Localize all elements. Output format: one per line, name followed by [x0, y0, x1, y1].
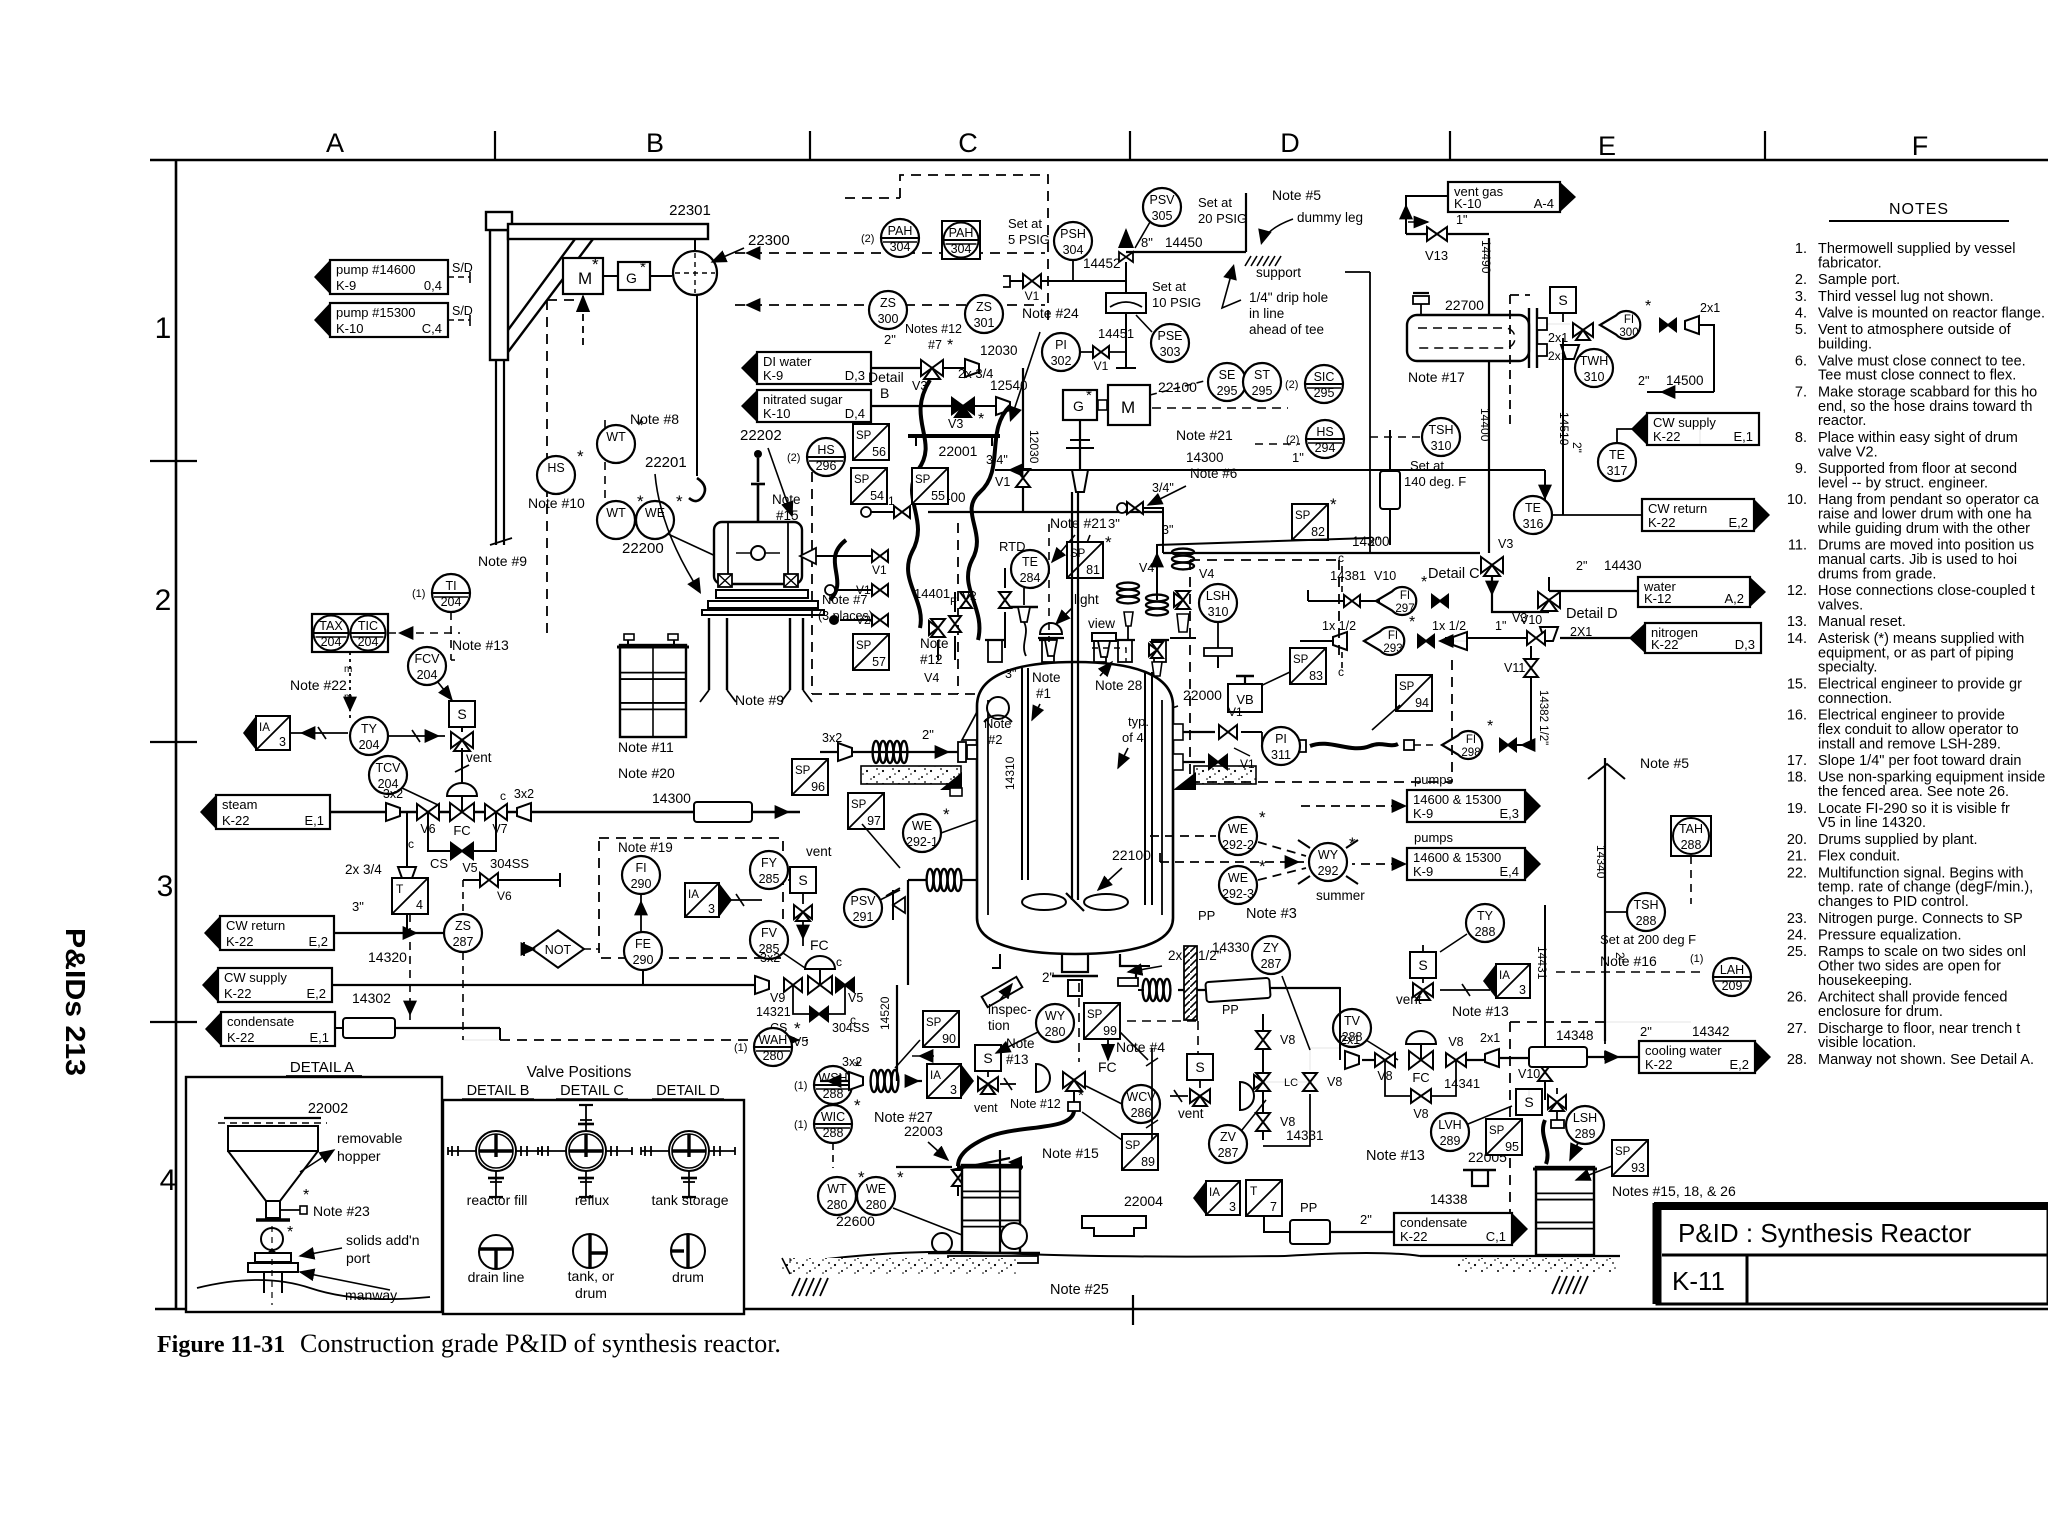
- TE capillary into vessel: [1024, 622, 1026, 656]
- svg-text:2x1: 2x1: [1480, 1031, 1500, 1045]
- grade line under cart: [795, 1252, 1285, 1263]
- svg-text:14320: 14320: [368, 949, 407, 965]
- svg-text:15.: 15.: [1787, 676, 1807, 692]
- left V8 manifold vertical: [1262, 1014, 1264, 1140]
- svg-text:209: 209: [1722, 979, 1743, 993]
- nozzle drop line a V2: [954, 636, 956, 660]
- svg-text:Manway not shown. See Detail A: Manway not shown. See Detail A.: [1818, 1052, 2034, 1068]
- svg-text:WIC: WIC: [821, 1110, 845, 1124]
- svg-text:289: 289: [1575, 1127, 1596, 1141]
- dashed box hose station: [811, 455, 813, 694]
- valve V13 vent: [1406, 233, 1489, 235]
- svg-text:Set at: Set at: [1152, 279, 1186, 294]
- svg-text:WY: WY: [1045, 1009, 1066, 1023]
- svg-text:E,2: E,2: [308, 934, 328, 949]
- right nozzles V1 valves: [1173, 731, 1215, 733]
- FC fill valve: [1063, 1072, 1085, 1091]
- svg-text:PP: PP: [1198, 908, 1215, 923]
- dashed box hoist controls: [900, 175, 1048, 320]
- svg-text:3: 3: [279, 735, 286, 749]
- vent valve below S right: [1413, 983, 1433, 1000]
- valve black to 2x1: [1660, 319, 1676, 331]
- bearing boxes on drum skid: [718, 574, 732, 587]
- svg-text:(1): (1): [734, 1042, 747, 1054]
- line from T7 down to PP: [1264, 1216, 1291, 1232]
- svg-text:14401: 14401: [914, 586, 950, 601]
- PP hatched wedge right: [1184, 946, 1197, 1020]
- svg-text:3/4": 3/4": [1152, 481, 1174, 495]
- svg-text:PI: PI: [1055, 338, 1067, 352]
- svg-text:Set at 200 deg F: Set at 200 deg F: [1600, 932, 1696, 947]
- svg-text:*: *: [676, 492, 683, 511]
- svg-text:12.: 12.: [1787, 583, 1807, 599]
- svg-text:1: 1: [155, 312, 172, 345]
- bellows fill line: [871, 1070, 899, 1092]
- svg-text:PSE: PSE: [1157, 329, 1182, 343]
- svg-text:CW supply: CW supply: [1653, 415, 1716, 430]
- svg-text:TSH: TSH: [1429, 423, 1454, 437]
- svg-text:view: view: [1088, 616, 1115, 631]
- valve V10 nitrogen: [1527, 631, 1545, 645]
- svg-text:Detail C: Detail C: [1428, 566, 1480, 582]
- svg-text:99: 99: [1103, 1024, 1117, 1038]
- svg-text:TAH: TAH: [1679, 822, 1703, 836]
- svg-text:#13: #13: [1006, 1052, 1029, 1067]
- svg-text:reactor fill: reactor fill: [467, 1192, 528, 1208]
- nitrogen line: [1560, 637, 1645, 639]
- svg-text:CW supply: CW supply: [224, 970, 287, 985]
- svg-text:Note 28: Note 28: [1095, 678, 1142, 693]
- svg-text:2": 2": [1360, 1212, 1372, 1227]
- svg-text:12030: 12030: [1027, 430, 1041, 464]
- WSH 288 bubble: [794, 1057, 861, 1104]
- SP 81 box: [1067, 533, 1112, 578]
- exchanger vent stub: [1413, 296, 1429, 304]
- 3x2 reducer steam 2: [517, 803, 531, 821]
- tube side line down to TE316: [1562, 338, 1564, 515]
- svg-text:V5 in line 14320.: V5 in line 14320.: [1818, 815, 1926, 831]
- exchanger shell side line down: [1488, 361, 1490, 553]
- svg-text:V1: V1: [995, 475, 1010, 489]
- drum fill hose: [1543, 1120, 1548, 1164]
- svg-text:27.: 27.: [1787, 1021, 1807, 1037]
- svg-text:ZY: ZY: [1263, 941, 1280, 955]
- svg-text:295: 295: [1217, 384, 1238, 398]
- WCV 286 bubble: [1122, 1085, 1160, 1123]
- svg-text:WT: WT: [606, 430, 626, 444]
- svg-text:V10: V10: [1518, 1067, 1540, 1081]
- svg-text:14340: 14340: [1594, 845, 1608, 879]
- svg-text:*: *: [978, 411, 984, 428]
- svg-text:Third vessel lug not shown.: Third vessel lug not shown.: [1818, 289, 1994, 305]
- SP 97 box: [848, 793, 884, 829]
- svg-text:8": 8": [1141, 235, 1153, 250]
- svg-text:A-4: A-4: [1534, 196, 1554, 211]
- svg-text:Construction grade P&ID of syn: Construction grade P&ID of synthesis rea…: [300, 1329, 781, 1358]
- svg-text:2x1: 2x1: [1340, 1033, 1360, 1047]
- svg-text:12030: 12030: [980, 343, 1018, 358]
- svg-text:drums from grade.: drums from grade.: [1818, 566, 1936, 582]
- PAH 304 bubble with (2): [861, 219, 919, 257]
- svg-text:vent: vent: [806, 844, 832, 859]
- valve position detail C - reflux: [538, 1105, 632, 1197]
- svg-text:14382 1/2": 14382 1/2": [1537, 690, 1549, 745]
- valve V11 on nitrogen drop: [1530, 646, 1532, 700]
- svg-text:V8: V8: [1280, 1033, 1295, 1047]
- svg-text:*: *: [1105, 533, 1112, 552]
- svg-text:310: 310: [1208, 605, 1229, 619]
- svg-text:V10: V10: [1374, 569, 1396, 583]
- svg-text:LAH: LAH: [1720, 963, 1744, 977]
- valve V1 on 14452: [1023, 274, 1041, 288]
- svg-text:24.: 24.: [1787, 928, 1807, 944]
- title block: [1657, 1206, 2048, 1304]
- svg-text:288: 288: [823, 1126, 844, 1140]
- TY 204 bubble: [350, 717, 388, 755]
- svg-text:K-12: K-12: [1644, 591, 1671, 606]
- svg-text:300: 300: [1619, 327, 1638, 339]
- svg-text:*: *: [854, 1096, 861, 1115]
- svg-text:Notes #15, 18, & 26: Notes #15, 18, & 26: [1612, 1183, 1736, 1199]
- FI 297 pointer bubble: [1376, 574, 1427, 615]
- svg-text:3": 3": [352, 899, 364, 914]
- svg-text:PSV: PSV: [1149, 193, 1175, 207]
- svg-text:G: G: [626, 270, 637, 286]
- spray head drum line: [1240, 1082, 1254, 1110]
- vent valve under S: [794, 905, 812, 921]
- svg-text:HS: HS: [817, 443, 834, 457]
- svg-text:14450: 14450: [1165, 235, 1203, 250]
- svg-text:Note #22: Note #22: [290, 677, 347, 693]
- V3 detail C three way: [1481, 557, 1503, 576]
- flex bellows lower left into jacket: [927, 869, 962, 891]
- svg-text:14338: 14338: [1430, 1192, 1468, 1207]
- rupture disc set at 10 psig: [1125, 281, 1127, 293]
- svg-text:3: 3: [157, 870, 174, 903]
- svg-text:SP: SP: [856, 640, 872, 652]
- svg-text:304: 304: [890, 240, 911, 254]
- svg-text:DI water: DI water: [763, 354, 812, 369]
- TV control valve FC: [1406, 1031, 1436, 1069]
- svg-text:Note: Note: [1006, 1036, 1035, 1051]
- svg-text:P&IDs 213: P&IDs 213: [60, 928, 91, 1076]
- water flag: [1638, 577, 1766, 607]
- small valve V1 on 14400 left: [894, 506, 910, 518]
- svg-text:1x 1/2: 1x 1/2: [1432, 619, 1466, 633]
- svg-text:condensate: condensate: [227, 1014, 294, 1029]
- svg-text:13.: 13.: [1787, 614, 1807, 630]
- vessel bottom outlet center: [1062, 954, 1088, 972]
- svg-text:17.: 17.: [1787, 753, 1807, 769]
- CW supply flag right: [1631, 413, 1759, 445]
- svg-text:Note: Note: [772, 492, 801, 507]
- pumps flag E3: [1407, 790, 1541, 822]
- svg-text:TE: TE: [1525, 501, 1541, 515]
- svg-text:2": 2": [1368, 534, 1380, 549]
- hoist gear G: [618, 262, 650, 290]
- dashed TAH line 1: [1605, 1021, 1691, 1023]
- svg-text:DETAIL A: DETAIL A: [290, 1059, 354, 1076]
- svg-text:2x1: 2x1: [1700, 301, 1720, 315]
- 2x1 funnel detail D: [1540, 627, 1558, 641]
- svg-text:287: 287: [1261, 957, 1282, 971]
- svg-text:3: 3: [950, 1083, 957, 1097]
- hoist motor M: [563, 258, 603, 294]
- line 14450 header to dummy leg: [1126, 251, 1246, 253]
- hopper outlet flange: [256, 1218, 290, 1221]
- svg-text:2": 2": [884, 332, 896, 347]
- PSH 304 bubble: [1054, 222, 1092, 260]
- svg-text:SP: SP: [854, 474, 870, 486]
- nitrogen flag: [1629, 623, 1761, 653]
- drum cart 22003 drum: [959, 1165, 1023, 1253]
- reducer before FI293: [1333, 632, 1347, 650]
- svg-text:89: 89: [1141, 1155, 1155, 1169]
- svg-text:Flex conduit.: Flex conduit.: [1818, 849, 1900, 865]
- nozzle flange lower left: [950, 788, 962, 796]
- svg-text:E,1: E,1: [309, 1030, 329, 1045]
- svg-text:V2: V2: [962, 589, 977, 603]
- svg-text:summer: summer: [1316, 888, 1365, 903]
- svg-text:FC: FC: [1098, 1059, 1117, 1075]
- V3 three way top: [921, 360, 943, 379]
- svg-text:SP: SP: [1295, 510, 1311, 522]
- svg-text:pump #14600: pump #14600: [336, 262, 416, 277]
- svg-text:SIC: SIC: [1314, 370, 1335, 384]
- svg-text:c: c: [408, 837, 414, 851]
- svg-text:Note #3: Note #3: [1246, 906, 1297, 922]
- small valves on drop hose: [952, 1170, 964, 1186]
- svg-text:14500: 14500: [1666, 373, 1704, 388]
- svg-text:TE: TE: [1609, 448, 1625, 462]
- svg-text:94: 94: [1415, 696, 1429, 710]
- IA 3 box bottom right: [1193, 1181, 1240, 1215]
- svg-text:TSH: TSH: [1634, 898, 1659, 912]
- WE 280 bubble: [857, 1168, 904, 1215]
- svg-text:291: 291: [853, 910, 874, 924]
- svg-text:300: 300: [878, 312, 899, 326]
- svg-text:E,4: E,4: [1499, 864, 1519, 879]
- svg-text:14381: 14381: [1330, 568, 1366, 583]
- svg-text:292-2: 292-2: [1222, 838, 1254, 852]
- svg-text:22001: 22001: [939, 443, 978, 459]
- manway flanges: [255, 1253, 291, 1262]
- ground hatch right: [1552, 1276, 1560, 1294]
- svg-text:removable: removable: [337, 1130, 403, 1146]
- svg-text:14302: 14302: [352, 990, 391, 1006]
- svg-text:E,2: E,2: [1729, 1057, 1749, 1072]
- svg-text:V1: V1: [1240, 757, 1255, 771]
- svg-text:FC: FC: [453, 823, 470, 838]
- valve V10 on 14431 bottom: [1538, 1063, 1552, 1081]
- svg-text:0,4: 0,4: [424, 278, 442, 293]
- svg-text:V3: V3: [948, 417, 963, 431]
- svg-text:m: m: [344, 692, 352, 703]
- nitrated sugar line to V3b: [871, 405, 952, 407]
- IA 3 instrument air box: [243, 716, 290, 750]
- svg-text:TY: TY: [1477, 909, 1494, 923]
- svg-text:*: *: [794, 1019, 801, 1038]
- svg-text:2": 2": [1640, 1024, 1652, 1039]
- SP 54 box: [851, 468, 887, 504]
- svg-text:Note #21: Note #21: [1176, 427, 1233, 443]
- V4 valve top vessel left: [929, 619, 945, 637]
- svg-text:Tee must close connect to flex: Tee must close connect to flex.: [1818, 368, 2016, 384]
- border left line: [175, 160, 178, 1310]
- valve black after FI297: [1432, 595, 1448, 607]
- sparger speckle band right: [1194, 766, 1256, 784]
- svg-text:S: S: [798, 872, 807, 888]
- TAH 288 boxed bubble: [1671, 816, 1711, 856]
- SP 55 box: [912, 468, 948, 504]
- svg-text:the fenced area. See note 26.: the fenced area. See note 26.: [1818, 784, 2009, 800]
- svg-text:1/4" drip hole: 1/4" drip hole: [1249, 290, 1328, 305]
- hose coupling squiggles left 14401: [830, 540, 846, 600]
- zone tick top: [1129, 131, 1131, 160]
- svg-text:install and remove LSH-289.: install and remove LSH-289.: [1818, 736, 2001, 752]
- svg-text:#2: #2: [988, 732, 1002, 747]
- svg-text:Notes #12: Notes #12: [905, 322, 962, 336]
- svg-text:2": 2": [1576, 559, 1587, 573]
- svg-text:V5: V5: [848, 991, 863, 1005]
- svg-text:2.: 2.: [1795, 272, 1807, 288]
- svg-text:95: 95: [1505, 1140, 1519, 1154]
- PI 311 bubble: [1262, 727, 1300, 765]
- SP 93 box: [1612, 1140, 1648, 1176]
- svg-text:Note #25: Note #25: [1050, 1282, 1109, 1298]
- jib crane column break at grade: [490, 538, 512, 545]
- svg-text:pump #15300: pump #15300: [336, 305, 416, 320]
- svg-text:14310: 14310: [1003, 756, 1017, 790]
- PAH 304 in box: [942, 221, 980, 259]
- signal TY to valve: [388, 735, 445, 737]
- svg-text:22004: 22004: [1124, 1193, 1163, 1209]
- WT weight transmitter note8: [597, 416, 644, 463]
- svg-text:V6: V6: [497, 889, 512, 903]
- svg-text:solids add'n: solids add'n: [346, 1232, 420, 1248]
- svg-text:*: *: [287, 1224, 293, 1241]
- svg-text:56: 56: [872, 445, 886, 459]
- svg-text:304: 304: [1063, 243, 1084, 257]
- svg-text:m: m: [344, 664, 352, 675]
- svg-text:K-10: K-10: [1454, 196, 1481, 211]
- svg-text:SP: SP: [1399, 681, 1415, 693]
- LSH 289 bubble: [1566, 1106, 1604, 1144]
- valve V8 row b: [1446, 1053, 1466, 1067]
- valve on tube outlet: [1573, 323, 1593, 340]
- svg-text:288: 288: [1681, 838, 1702, 852]
- dashed line exchanger controls: [1509, 295, 1511, 430]
- svg-text:G: G: [1073, 398, 1084, 414]
- svg-text:317: 317: [1607, 464, 1628, 478]
- svg-text:SP: SP: [1615, 1146, 1631, 1158]
- svg-text:Note #9: Note #9: [478, 553, 527, 569]
- V3 three way bottom: [952, 398, 974, 417]
- TAX TIC 204 shared box: [312, 614, 388, 652]
- svg-text:K-22: K-22: [1653, 429, 1680, 444]
- svg-text:22000: 22000: [1183, 687, 1222, 703]
- bracket 22001: [908, 434, 1000, 438]
- svg-text:dummy leg: dummy leg: [1297, 210, 1363, 225]
- line 14340 vertical: [1604, 758, 1606, 1041]
- svg-text:19.: 19.: [1787, 801, 1807, 817]
- svg-text:valves.: valves.: [1818, 598, 1863, 614]
- valve at drum S: [1548, 1095, 1566, 1111]
- svg-text:1.: 1.: [1795, 241, 1807, 257]
- svg-text:V7: V7: [492, 822, 507, 836]
- svg-text:57: 57: [872, 655, 886, 669]
- svg-text:HS: HS: [547, 461, 564, 475]
- spec break 14330: [1205, 978, 1270, 1002]
- zone tick top: [494, 131, 496, 160]
- svg-text:2": 2": [922, 727, 934, 742]
- svg-text:WY: WY: [1318, 848, 1339, 862]
- svg-text:23.: 23.: [1787, 911, 1807, 927]
- drum cart base: [928, 1252, 1040, 1254]
- dashed control lines to zone C: [735, 252, 1045, 254]
- svg-text:TWH: TWH: [1580, 354, 1608, 368]
- signal slash to IA3: [1440, 989, 1490, 991]
- removable hopper: [224, 1117, 321, 1119]
- hoist trolley pulley 22300: [673, 251, 717, 295]
- grade speckle under cart: [782, 1258, 1017, 1274]
- view glass on dome: [1092, 633, 1116, 641]
- solenoid S on vent valve: [449, 701, 475, 727]
- spec break vertical: [1380, 471, 1400, 509]
- svg-text:T: T: [1250, 1184, 1258, 1198]
- TSH 310 bubble: [1422, 418, 1460, 456]
- svg-text:310: 310: [1431, 439, 1452, 453]
- svg-text:1": 1": [1292, 450, 1304, 465]
- svg-text:(1): (1): [412, 588, 425, 600]
- svg-text:c: c: [850, 1013, 856, 1027]
- svg-text:10 PSIG: 10 PSIG: [1152, 295, 1201, 310]
- svg-text:292-3: 292-3: [1222, 887, 1254, 901]
- row tick left: [150, 460, 197, 462]
- ZS 301 bubble: [965, 295, 1003, 333]
- svg-text:SP: SP: [851, 799, 867, 811]
- svg-text:304SS: 304SS: [490, 856, 529, 871]
- svg-text:CS: CS: [430, 856, 448, 871]
- line to FI297: [1308, 600, 1380, 602]
- svg-text:V8: V8: [1327, 1075, 1342, 1089]
- svg-text:*: *: [1487, 718, 1493, 735]
- svg-text:14600 & 15300: 14600 & 15300: [1413, 850, 1501, 865]
- CW supply line 14320: [332, 984, 762, 986]
- svg-text:CW return: CW return: [1648, 501, 1707, 516]
- svg-text:E: E: [1598, 131, 1616, 161]
- svg-text:16.: 16.: [1787, 708, 1807, 724]
- svg-text:*: *: [897, 1168, 904, 1187]
- svg-text:22003: 22003: [904, 1123, 943, 1139]
- svg-text:WE: WE: [866, 1182, 886, 1196]
- svg-text:18.: 18.: [1787, 770, 1807, 786]
- WIC 288 bubble: [794, 1096, 861, 1143]
- 22005 wall bracket: [1463, 1169, 1496, 1171]
- svg-text:22202: 22202: [740, 427, 782, 444]
- TV 288 control valve head: [1333, 1009, 1371, 1047]
- svg-text:3": 3": [1162, 523, 1173, 537]
- svg-text:WT: WT: [606, 506, 626, 520]
- svg-text:9.: 9.: [1795, 461, 1807, 477]
- closed valve V5 bypass: [810, 1007, 828, 1021]
- svg-text:reflux: reflux: [575, 1192, 609, 1208]
- svg-text:93: 93: [1631, 1161, 1645, 1175]
- valve black after FI298: [1500, 739, 1516, 751]
- svg-text:*: *: [1421, 574, 1427, 591]
- svg-text:LSH: LSH: [1573, 1111, 1597, 1125]
- pipe down to exchanger: [1488, 238, 1490, 320]
